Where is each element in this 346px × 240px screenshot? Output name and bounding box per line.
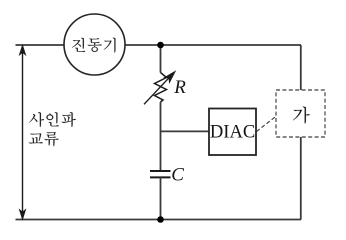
- svg-text:DIAC: DIAC: [210, 123, 255, 143]
- label: 사인파 (sine-wave): [29, 112, 76, 127]
- wire: right rail upper: [300, 45, 302, 90]
- wire: branch to DIAC: [161, 130, 210, 132]
- oscillator U1 (진동기) circle: [64, 14, 125, 75]
- wire: middle branch lower segment: [160, 177, 162, 219]
- label: 가: [293, 107, 309, 124]
- wire: middle branch mid segment: [160, 102, 162, 171]
- block 가: dashed box: [276, 90, 325, 137]
- resistor R (variable) zigzag: [155, 73, 167, 103]
- dashed callout line DIAC to block 가: [257, 116, 278, 132]
- wire: top rail: [16, 44, 302, 46]
- svg-text:C: C: [171, 164, 184, 185]
- wire: right rail lower: [300, 137, 302, 220]
- capacitor C plates: [150, 170, 171, 172]
- AC source V1: double-headed arrow line: [20, 45, 26, 219]
- node: bottom junction: [157, 216, 164, 223]
- DIAC box: [209, 109, 256, 156]
- label: 교류 (AC): [29, 132, 59, 146]
- variable-resistor arrow through R: [144, 72, 175, 105]
- node: top junction: [157, 42, 164, 49]
- wire: bottom rail: [16, 219, 302, 221]
- label: 진동기 (vibrator): [72, 38, 115, 53]
- wire: middle branch upper segment: [160, 45, 162, 73]
- svg-text:R: R: [173, 77, 186, 98]
